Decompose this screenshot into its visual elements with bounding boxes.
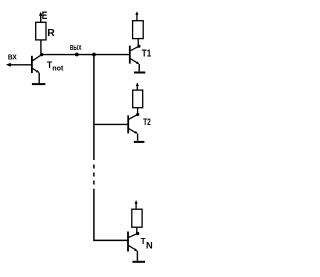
resistor R (T2) <box>133 90 143 108</box>
transistor T2 <box>128 115 138 141</box>
transistor T1 <box>130 46 140 72</box>
wire resistor to collector node <box>40 40 42 55</box>
svg-text:E: E <box>42 10 48 22</box>
node bus junction dot <box>92 53 96 57</box>
resistor R (TN) <box>132 209 142 227</box>
wire output line <box>42 54 130 56</box>
wire resistor to collector node (T2) <box>137 108 139 115</box>
wire branch bus to T2 base <box>94 123 128 125</box>
node ВЫХ output dot <box>75 53 79 57</box>
wire bus vertical solid <box>93 55 95 161</box>
supply arrow (T1) <box>135 11 138 21</box>
resistor R <box>36 22 46 40</box>
node collector dot (T1) <box>137 45 140 48</box>
svg-text:T2: T2 <box>143 117 151 128</box>
svg-text:Tnot: Tnot <box>47 60 64 72</box>
svg-text:TN: TN <box>141 237 153 251</box>
input terminal arrow ВХ <box>6 63 31 67</box>
svg-text:ВХ: ВХ <box>8 53 17 62</box>
transistor Tnot <box>32 55 41 83</box>
svg-text:ВЫХ: ВЫХ <box>70 43 82 52</box>
ground (TN) <box>132 261 145 263</box>
node collector dot (TN) <box>136 232 139 235</box>
ground (Tnot) <box>32 83 46 85</box>
resistor R (T1) <box>133 21 144 39</box>
power arrow E <box>39 12 43 23</box>
svg-text:R: R <box>47 28 55 39</box>
node collector dot (T2) <box>136 113 139 116</box>
supply arrow (TN) <box>135 200 138 209</box>
wire resistor to collector node (T1) <box>137 39 139 47</box>
supply arrow (T2) <box>136 82 139 90</box>
ground (T1) <box>134 72 145 74</box>
transistor TN <box>128 232 138 261</box>
wire resistor to collector node (TN) <box>136 227 138 233</box>
wire bus dashed continuation <box>93 165 95 185</box>
svg-text:T1: T1 <box>142 48 152 59</box>
ground (T2) <box>134 141 145 143</box>
node collector junction dot <box>40 53 43 56</box>
wire bus lower solid with elbow to TN base <box>94 189 128 241</box>
